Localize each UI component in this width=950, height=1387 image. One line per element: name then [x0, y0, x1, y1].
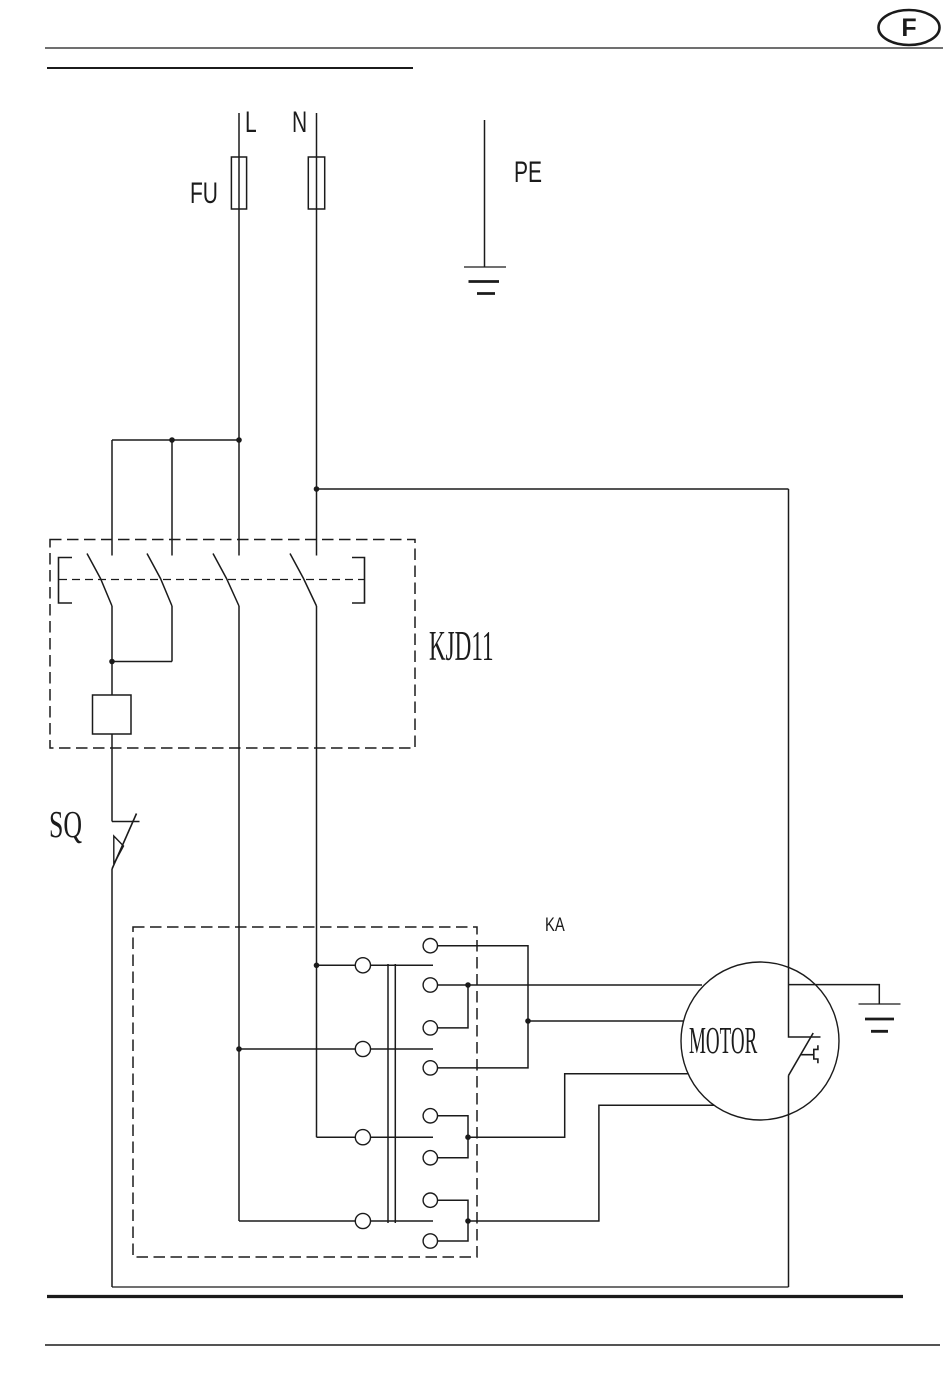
svg-text:FU: FU: [190, 178, 218, 210]
wire relay row1: [317, 964, 434, 966]
switch block KJD11 dashed box: [50, 540, 415, 749]
terminal RC3: [423, 1021, 437, 1035]
node junction dot RC7 loop: [465, 1218, 471, 1224]
fuse FU (N): [308, 157, 324, 209]
wire SQ down to bottom: [111, 869, 113, 1287]
wire relay row3: [317, 1136, 434, 1138]
node junction dot at N y489: [314, 486, 320, 492]
top sub rule: [47, 67, 413, 69]
wire to motor V: [468, 1074, 689, 1138]
node junction dot RC2: [465, 982, 471, 988]
wire right rail down to motor switch: [789, 489, 821, 1037]
node junction dot at 239,440: [236, 437, 242, 443]
switch pole 3 blade: [213, 554, 239, 607]
node junction dot N row1: [314, 963, 320, 969]
node junction dot at 112,661.5: [109, 659, 115, 665]
wire pole 4 output down (N feed): [316, 606, 318, 1137]
wire RC2 stub: [438, 984, 469, 986]
ground PE bar2: [469, 280, 500, 283]
svg-text:PE: PE: [514, 157, 542, 189]
wire N from fuse down: [316, 113, 318, 556]
svg-text:SQ: SQ: [49, 804, 82, 846]
centrifugal switch blade: [789, 1033, 814, 1076]
bottom rule: [45, 1344, 940, 1346]
relay KA dashed box: [133, 927, 477, 1257]
wire coil to SQ: [111, 734, 113, 822]
wire bottom return: [112, 1286, 789, 1288]
wire RC5-RC6 loop: [438, 1116, 469, 1158]
svg-text:KJD11: KJD11: [429, 624, 494, 670]
ground PE bar3: [477, 292, 495, 295]
centrifugal switch staple: [814, 1045, 818, 1063]
wire pole1-pole2 link: [112, 661, 172, 663]
wire branch2 down: [171, 440, 173, 556]
wire RC2-RC3 loop: [438, 985, 469, 1028]
wire relay row2: [239, 1048, 433, 1050]
relay armature bar 2: [394, 964, 396, 1223]
limit switch SQ wedge: [114, 836, 124, 864]
wire relay row4: [239, 1220, 433, 1222]
ground PE bar1: [464, 266, 506, 268]
terminal RC8: [423, 1234, 437, 1248]
page marker F ellipse: [879, 10, 940, 45]
ground motor bar2: [865, 1018, 894, 1021]
wire pole 3 output down (L feed): [238, 606, 240, 1221]
switch pole 1 output: [111, 606, 113, 662]
motor M circle: [681, 962, 839, 1120]
bracket left: [59, 558, 73, 604]
svg-text:N: N: [292, 107, 307, 139]
switch pole 2 output: [171, 606, 173, 662]
ground motor bar3: [871, 1030, 888, 1033]
terminal RC5: [423, 1109, 437, 1123]
wire junction to coil: [111, 662, 113, 696]
centrifugal switch tap: [801, 1054, 814, 1056]
bracket right: [352, 558, 365, 604]
wire PE: [484, 120, 486, 267]
limit switch SQ blade: [112, 814, 137, 870]
wire branch bus y440: [112, 439, 239, 441]
top border rule: [45, 47, 943, 49]
wire to motor U: [528, 1020, 684, 1022]
terminal LC1: [355, 958, 370, 973]
switch pole 4 blade: [290, 554, 317, 607]
wire RC7-RC8 loop: [438, 1200, 469, 1241]
wire N to right rail: [317, 488, 789, 490]
coil of KJD11: [93, 695, 132, 734]
terminal LC4: [355, 1213, 370, 1228]
wire RC1 loop: [438, 946, 529, 1068]
switch pole 2 blade: [147, 554, 172, 607]
svg-text:L: L: [245, 107, 257, 139]
wire branch1 down: [111, 440, 113, 556]
node junction dot at 172,440: [169, 437, 175, 443]
ground motor bar1: [859, 1003, 901, 1005]
bottom thick border: [47, 1295, 903, 1298]
terminal RC7: [423, 1193, 437, 1207]
wire motor switch down: [788, 1076, 790, 1288]
switch pole 1 blade: [87, 554, 112, 607]
wire to motor W: [468, 1105, 715, 1221]
terminal RC4: [423, 1061, 437, 1075]
terminal RC6: [423, 1151, 437, 1165]
terminal RC2: [423, 978, 437, 992]
actuator dashed link: [59, 579, 364, 581]
terminal RC1: [423, 939, 437, 953]
terminal LC3: [355, 1130, 370, 1145]
node junction dot L row2: [236, 1046, 242, 1052]
limit switch SQ contact: [112, 821, 140, 823]
node junction dot RC5 loop: [465, 1134, 471, 1140]
wire motor frame to ground: [789, 985, 880, 1004]
terminal LC2: [355, 1041, 370, 1056]
wire L from fuse to junction: [238, 113, 240, 556]
svg-text:F: F: [901, 14, 916, 42]
node junction dot RC1 loop: [525, 1018, 531, 1024]
svg-text:KA: KA: [545, 914, 565, 935]
relay armature bar 1: [387, 964, 389, 1223]
svg-text:MOTOR: MOTOR: [689, 1020, 757, 1062]
fuse FU (L): [231, 157, 246, 209]
wire RC2 to motor frame PE: [468, 984, 702, 986]
